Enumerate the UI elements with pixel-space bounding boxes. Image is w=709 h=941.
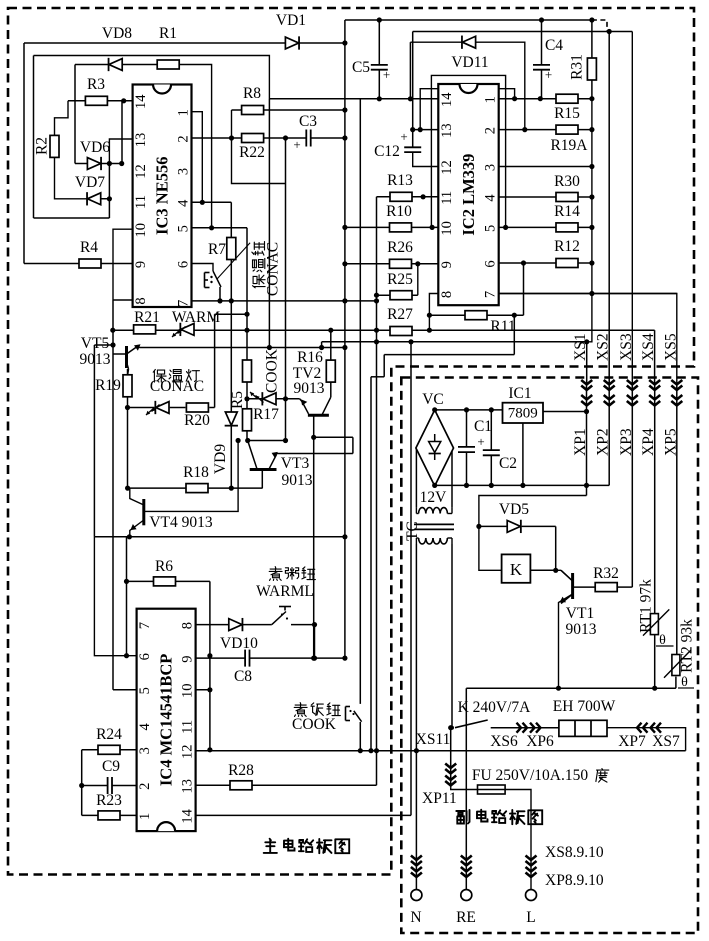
wire x314 warml drop [314,625,316,659]
svg-text:13: 13 [133,133,149,148]
wire C1 column [466,410,468,486]
wire pin7 row [499,293,677,295]
resistor R20 [184,403,210,429]
label warm button conac [252,242,282,297]
svg-text:VT5: VT5 [81,335,110,352]
transistor VT5 [80,335,141,376]
svg-text:13: 13 [439,123,455,138]
svg-text:IC3 NE556: IC3 NE556 [153,157,172,235]
re arrows [461,856,472,878]
capacitor C4 [533,37,563,82]
wire fuse branch [450,728,452,788]
wire pin12 row xs11 [196,750,686,752]
resistor R26 [387,239,413,268]
diode warm led [180,323,194,336]
wire C4 column [541,20,543,99]
wire pin1 row R15 [499,98,592,100]
label main board title [264,839,349,854]
capacitor C9 [102,758,120,794]
wire bus x33 [33,56,35,219]
svg-text:4: 4 [137,723,153,731]
svg-text:R15: R15 [554,105,580,122]
wire R5 column [246,382,248,409]
svg-text:R4: R4 [80,239,98,256]
svg-text:K 240V/7A: K 240V/7A [458,699,532,716]
wire x285 C3 branch [285,138,287,441]
wire K switch right row [491,727,559,729]
transformer TC [404,489,454,544]
svg-text:4: 4 [176,199,192,207]
svg-text:9: 9 [133,261,149,268]
svg-text:R28: R28 [228,762,254,779]
wire XS2 line [608,32,610,385]
resistor R13 [387,172,413,201]
svg-text:6: 6 [176,261,192,268]
svg-text:14: 14 [133,94,149,109]
resistor R23 [96,792,122,820]
resistor R1 [157,25,179,69]
wire bus A x345 [344,20,346,658]
wire pin8 row VD10 warml [196,624,315,626]
svg-text:IC1: IC1 [508,385,531,402]
resistor R25 [387,271,413,300]
wire R11 branch y354 [371,315,514,751]
resistor R19A [550,125,588,154]
svg-text:C12: C12 [374,143,400,160]
wire R31 column [591,20,593,99]
wire R11 row [429,314,523,316]
resistor R22 [239,134,265,162]
svg-text:XS5: XS5 [662,333,679,361]
svg-text:4: 4 [483,194,499,202]
svg-text:XP1: XP1 [572,428,589,456]
svg-text:5: 5 [137,687,153,694]
terminal RE [456,856,476,927]
svg-text:+: + [477,434,484,449]
resistor R18 [183,464,209,493]
wire x122 VD6 to pin14 [121,101,123,164]
svg-text:7: 7 [483,291,499,298]
transistor VT4 [130,499,213,532]
svg-text:TC: TC [404,521,421,541]
svg-text:R24: R24 [96,726,122,743]
svg-text:9013: 9013 [282,472,313,489]
wire x352 seg [352,437,354,453]
connector XP1 arrows [581,395,592,406]
svg-text:XP7: XP7 [618,733,646,750]
wire VD5 row [479,525,556,527]
connector XS6 XP6 arrows [490,723,554,750]
wire VD1 row [24,42,345,44]
wire XS4 line [654,330,656,384]
thermistor RT1 97k [638,579,674,648]
svg-text:R11: R11 [490,318,515,335]
svg-text:8: 8 [439,291,455,298]
wire R13 row pin11 [377,196,439,198]
svg-text:10: 10 [133,223,149,238]
wire emitter rail [466,687,676,689]
wire bridge left leg [415,448,417,507]
wire x94 stub [94,344,113,346]
wire pin5 tap [215,314,247,407]
svg-text:12V: 12V [420,489,448,506]
svg-text:9: 9 [180,655,196,662]
svg-text:XP3: XP3 [618,428,635,456]
resistor R32 [593,565,619,592]
resistor R8 [242,85,264,115]
diode VD10 [220,618,258,652]
wire y31 row [413,31,633,33]
svg-text:XP6: XP6 [526,733,554,750]
wire K right [530,569,555,571]
wire VT2 base row [314,436,353,438]
capacitor C3 [293,113,317,152]
connector XP3 arrows [627,395,638,406]
wire IC3 pin5 row [192,227,248,229]
wire y537 row [94,536,345,538]
svg-text:R6: R6 [155,558,173,575]
wire gnd rail [435,484,610,486]
svg-text:VD9: VD9 [212,444,229,474]
svg-text:14: 14 [439,92,455,107]
svg-text:XP5: XP5 [662,428,679,456]
wire IC3 pin4 row [192,201,232,203]
terminal L [526,856,537,927]
capacitor C12 [374,129,421,160]
wire VT4 emitter [130,520,144,537]
svg-text:COOK: COOK [292,716,337,733]
wire XP1 line [586,384,588,496]
svg-text:C8: C8 [234,668,252,685]
wire x94 left drop [93,345,95,537]
svg-text:R22: R22 [239,144,265,161]
connector XP7 XS7 arrows [618,723,680,750]
wire VD9 column [230,301,232,488]
svg-text:R10: R10 [386,203,412,220]
wire XS1 line [586,342,588,384]
wire R16 to VT2 [322,382,331,415]
svg-text:CONAC: CONAC [150,378,204,395]
svg-text:11: 11 [180,720,196,734]
svg-text:COOK: COOK [264,348,281,393]
label secondary board title [456,810,542,825]
resistor R30 [554,173,580,202]
resistor R11 [465,311,516,335]
wire pin4 row R30 [499,196,592,198]
wire pin9 row C8 [196,657,345,659]
svg-text:VD5: VD5 [499,501,529,518]
wire R8 left loop [232,110,286,184]
svg-text:10: 10 [439,221,455,236]
svg-text:VD7: VD7 [75,174,105,191]
svg-text:13: 13 [180,779,196,794]
wire VT1 base R32 row [573,586,632,588]
wire pin13 row IC3 [109,139,132,164]
svg-text:R31: R31 [569,54,586,80]
svg-text:R5: R5 [229,391,246,409]
svg-text:11: 11 [439,191,455,205]
connector XS1 arrows [581,380,592,390]
wire R2 bottom to VD7 [55,157,88,198]
wire x411 long [410,342,412,816]
wire R8 row [232,109,345,111]
wire 9V bus x592 [587,99,592,342]
svg-text:R13: R13 [387,172,413,189]
wire IC2 loop pin10-pin5 [431,75,505,227]
wire R7 column [230,260,232,301]
svg-text:RE: RE [456,909,476,926]
svg-text:5: 5 [483,225,499,232]
svg-text:6: 6 [137,653,153,660]
wire warm switch bottom [219,287,221,301]
svg-text:C4: C4 [545,37,563,54]
wire R28 row pin13 [196,784,377,786]
diode VD5 [499,501,529,533]
label zhouzhou button [269,567,315,581]
terminal N [410,856,422,927]
svg-text:9013: 9013 [294,380,325,397]
switch WARML button [272,607,291,625]
svg-text:XP11: XP11 [422,790,457,807]
wire VD7 row [87,198,109,200]
svg-text:R20: R20 [184,412,210,429]
svg-text:3: 3 [176,168,192,175]
svg-text:VT1: VT1 [566,605,594,622]
wire IC2 loop2 pin1 [420,89,514,130]
svg-text:WARM: WARM [172,309,220,326]
svg-text:R19: R19 [95,377,121,394]
svg-text:C9: C9 [102,758,120,775]
resistor R3 [85,76,107,105]
wire FU row [451,788,531,890]
resistor R15 [554,94,580,122]
diode VD11 [451,36,488,71]
wire pin5 column [246,228,248,360]
wire x360 cook column [359,99,361,704]
svg-text:R14: R14 [554,203,580,220]
wire R3 row pin14 [68,100,133,102]
diode VD8 [102,25,132,71]
svg-text:XS2: XS2 [595,333,612,361]
svg-text:IC4 MC14541BCP: IC4 MC14541BCP [157,654,176,786]
svg-text:VD6: VD6 [80,139,110,156]
svg-text:+: + [400,129,407,144]
label FU [472,767,609,784]
svg-text:1: 1 [483,96,499,103]
svg-text:XS1: XS1 [572,333,589,361]
svg-text:C1: C1 [474,418,492,435]
wire x109 VD6-VD7-loop [108,164,110,219]
wire x269 drop [268,99,270,348]
wire VT3 emitter row [277,453,353,455]
svg-text:8: 8 [180,622,196,629]
svg-text:EH 700W: EH 700W [553,698,616,715]
wire R3 left drop [55,101,69,136]
svg-text:C5: C5 [352,59,370,76]
svg-text:9013: 9013 [566,621,597,638]
wire x94 to pin6 [94,537,136,656]
svg-text:VC: VC [422,391,444,408]
wire pin2 row R19A [499,129,592,131]
svg-text:14: 14 [180,808,196,823]
svg-text:1: 1 [137,813,153,820]
svg-text:R7: R7 [208,241,226,258]
diode VD1 [276,12,306,50]
resistor R17 [243,406,280,431]
wire VT5 emitter row [140,347,345,349]
l arrows [526,856,537,878]
svg-text:VD11: VD11 [451,54,488,71]
wire pin6 row R12 [499,262,592,264]
connector XS4 arrows [649,380,660,390]
svg-text:R12: R12 [554,238,580,255]
wire XP4 RT1 [654,384,656,688]
svg-text:IC2 LM339: IC2 LM339 [459,154,478,236]
transistor VT3 [248,441,313,489]
bridge rectifier VC [416,391,454,486]
transistor VT2 [300,399,329,415]
svg-text:C2: C2 [499,455,517,472]
resistor R10 [386,203,412,232]
wire pin5 row R14 [499,226,592,228]
connector XS2 arrows [604,380,615,390]
svg-text:9: 9 [439,261,455,268]
wire R18 row [128,487,263,489]
switch warm button CONAC [205,243,251,288]
diode cook led [262,392,276,405]
svg-text:12: 12 [180,744,196,759]
relay K box [502,554,531,582]
wire top rail 9V [345,19,592,21]
svg-text:+: + [293,137,300,152]
svg-text:XS11: XS11 [416,731,451,748]
capacitor C8 [234,650,252,685]
wire VT3 coll row [247,440,286,442]
wire pin7 row to XS5 [499,294,677,385]
wire primary left leg N line [415,544,417,890]
wire R19 column [127,369,129,488]
regulator IC1 7809 [503,385,544,423]
resistor R27 [387,306,413,336]
svg-text:8: 8 [133,297,149,304]
wire VD8 R1 row [75,65,212,228]
wire XP2 line [608,384,610,485]
svg-text:VT4 9013: VT4 9013 [149,514,213,531]
svg-text:N: N [410,909,421,926]
wire pin14 row [196,814,411,816]
switch COOK button [346,707,362,723]
wire x126 R6 branch [126,537,128,656]
diode VD7 [75,174,105,205]
wire pin13 row IC2 [413,129,439,131]
wire x75 VD6 feed [74,65,76,164]
label cook button [294,703,340,717]
svg-text:XS6: XS6 [490,733,518,750]
svg-text:3: 3 [137,747,153,754]
wire EH right return [607,728,686,751]
wire R23 row pin1 [82,814,137,816]
capacitor C1 [458,447,475,452]
wire VD5 right drop [555,526,557,570]
wire left bus x376 [376,197,378,786]
wire VD11 row [410,42,524,129]
svg-text:R26: R26 [387,239,413,256]
connector XP4 arrows [649,395,660,406]
capacitor C2 [483,450,500,455]
wire IC3 pin6 row switch [192,264,214,272]
transistor VT1 [560,570,597,638]
wire R16 column [330,330,332,360]
wire pin5 row IC4 [113,689,137,691]
resistor R14 [554,203,580,232]
wire x412 pin13 drop [412,32,414,148]
wire pin10 pin8 loop [113,229,133,300]
wire RE column [465,688,467,889]
svg-text:RT1 97k: RT1 97k [638,579,655,633]
svg-text:VD8: VD8 [102,25,132,42]
connector XP2 arrows [604,395,615,406]
resistor R7 [208,238,236,260]
svg-text:2: 2 [483,127,499,134]
n arrows [411,856,422,878]
svg-text:RT2 93k: RT2 93k [679,619,696,673]
svg-text:12: 12 [439,160,455,175]
connector XS5 arrows [671,380,682,390]
svg-text:R32: R32 [593,565,619,582]
resistor R5 [229,360,252,409]
svg-text:R18: R18 [183,464,209,481]
wire C2 column [490,410,492,486]
wire VD7 loop bottom [34,217,110,219]
wire IC1 gnd [522,423,524,485]
wire R6 right drop [209,581,211,749]
svg-text:CONAC: CONAC [265,242,282,296]
fuse FU [478,785,506,794]
wire pin3 row [499,166,592,168]
wire VT1 emitter [559,594,573,688]
svg-text:R8: R8 [243,85,261,102]
wire R24 row pin3 [82,749,137,751]
connector XP5 arrows [671,395,682,406]
wire bridge right leg [451,448,453,507]
svg-text:R16: R16 [297,349,323,366]
wire R17 bottom [246,430,248,440]
LED conac [146,401,169,415]
svg-text:2: 2 [176,135,192,142]
wire VT5 base [113,353,127,355]
LED warm [172,309,220,337]
wire C5 column [378,20,380,99]
svg-text:XP8.9.10: XP8.9.10 [545,872,604,889]
svg-text:R19A: R19A [550,137,588,154]
wire K VD5 feed [479,496,587,571]
svg-text:+: + [383,67,390,82]
svg-text:9013: 9013 [80,351,111,368]
svg-text:R17: R17 [253,406,279,423]
resistor R24 [96,726,122,754]
svg-text:1: 1 [176,109,192,116]
wire bridge top rail [435,409,503,411]
svg-text:L: L [526,909,535,926]
svg-text:5: 5 [176,225,192,232]
wire R25 jog [377,264,418,295]
wire R4 row pin9 [24,263,133,265]
svg-text:K: K [510,560,523,579]
svg-text:2: 2 [137,783,153,790]
wire primary right leg [451,544,453,728]
svg-text:XP2: XP2 [595,428,612,456]
svg-text:R3: R3 [87,76,105,93]
